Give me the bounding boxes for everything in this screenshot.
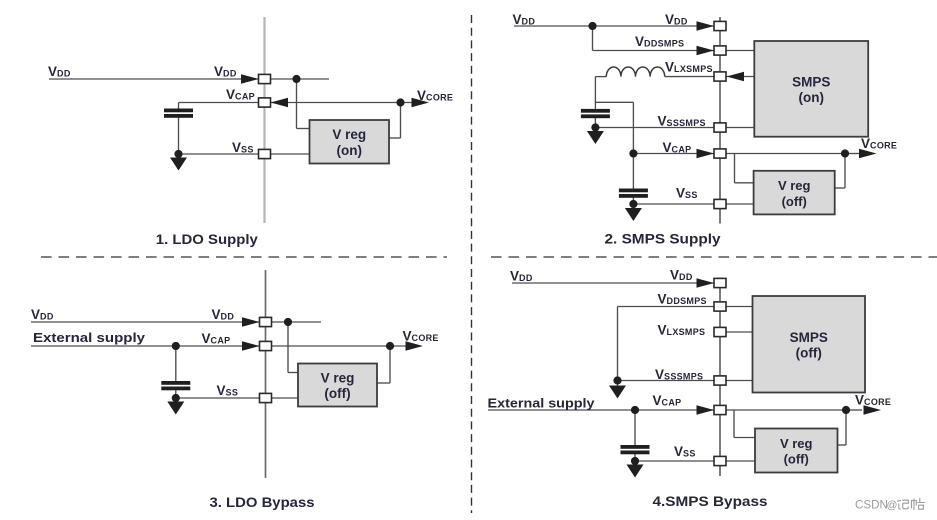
svg-text:VDD: VDD: [513, 12, 536, 27]
svg-text:SMPS: SMPS: [790, 330, 828, 345]
svg-text:(on): (on): [798, 90, 823, 105]
svg-text:VCORE: VCORE: [855, 393, 891, 408]
svg-text:External supply: External supply: [488, 397, 595, 411]
svg-text:VCORE: VCORE: [417, 88, 453, 103]
svg-text:V reg: V reg: [321, 371, 355, 386]
svg-text:V reg: V reg: [332, 127, 366, 142]
svg-text:VSSSMPS: VSSSMPS: [655, 367, 703, 382]
svg-text:VCAP: VCAP: [202, 331, 231, 346]
svg-text:SMPS: SMPS: [792, 74, 830, 89]
svg-text:VLXSMPS: VLXSMPS: [658, 323, 706, 338]
svg-text:VCAP: VCAP: [663, 140, 692, 155]
svg-text:(on): (on): [336, 143, 361, 158]
svg-text:VDD: VDD: [31, 307, 54, 322]
svg-text:V reg: V reg: [780, 436, 813, 451]
svg-text:(off): (off): [782, 194, 807, 209]
svg-text:CSDN: CSDN: [855, 499, 888, 512]
svg-text:VDD: VDD: [48, 64, 71, 79]
svg-text:VSS: VSS: [676, 186, 698, 201]
svg-text:VCORE: VCORE: [403, 329, 439, 344]
svg-text:VDD: VDD: [212, 307, 235, 322]
svg-text:VCORE: VCORE: [861, 136, 897, 151]
svg-text:VDD: VDD: [665, 12, 688, 27]
svg-text:External supply: External supply: [33, 331, 145, 345]
svg-text:VLXSMPS: VLXSMPS: [665, 60, 713, 75]
svg-text:(off): (off): [324, 386, 350, 401]
svg-text:VDD: VDD: [670, 268, 693, 283]
svg-text:@: @: [887, 500, 898, 512]
svg-text:VDD: VDD: [510, 269, 533, 284]
svg-text:VDDSMPS: VDDSMPS: [635, 34, 684, 49]
svg-text:VSSSMPS: VSSSMPS: [658, 114, 706, 129]
svg-text:VSS: VSS: [232, 140, 254, 155]
svg-text:V reg: V reg: [778, 178, 811, 193]
svg-text:VSS: VSS: [217, 383, 239, 398]
svg-text:VCAP: VCAP: [653, 393, 682, 408]
svg-text:(off): (off): [784, 452, 809, 467]
svg-text:1. LDO Supply: 1. LDO Supply: [156, 232, 259, 247]
svg-text:(off): (off): [796, 345, 822, 360]
svg-text:VCAP: VCAP: [226, 87, 255, 102]
svg-text:3. LDO Bypass: 3. LDO Bypass: [210, 495, 315, 510]
svg-text:4.SMPS Bypass: 4.SMPS Bypass: [653, 494, 768, 509]
svg-text:VSS: VSS: [674, 444, 696, 459]
svg-text:VDD: VDD: [214, 64, 237, 79]
svg-text:VDDSMPS: VDDSMPS: [658, 292, 707, 307]
svg-text:2. SMPS Supply: 2. SMPS Supply: [605, 232, 722, 247]
